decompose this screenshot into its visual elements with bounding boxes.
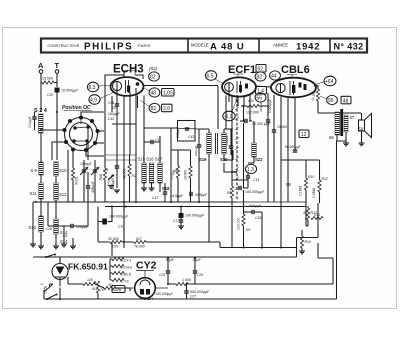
svg-text:C10: C10 xyxy=(118,225,124,229)
resistor R13 xyxy=(306,208,309,220)
coil S14 xyxy=(54,219,58,234)
svg-text:76.000: 76.000 xyxy=(134,245,145,249)
output transformer core xyxy=(340,109,343,136)
svg-text:C43: C43 xyxy=(188,135,194,139)
callout 206 boxed xyxy=(112,286,125,293)
callout -1,9 circled xyxy=(223,111,235,121)
tube CBL6 inner circle xyxy=(276,83,285,92)
speaker cone xyxy=(365,114,372,138)
wire link y150 xyxy=(171,149,191,151)
tube CY2 envelope xyxy=(135,278,156,299)
wire switch bottom down xyxy=(68,127,88,202)
wires from switch to right xyxy=(81,112,104,156)
callout 6,5 circled xyxy=(205,71,216,81)
wire earth down xyxy=(56,73,58,160)
coil S24 xyxy=(39,114,44,133)
bus y283 xyxy=(196,258,333,284)
svg-text:0,1MΩ: 0,1MΩ xyxy=(299,185,303,196)
capacitor C20 15.000 xyxy=(55,88,60,93)
callout 1,4 boxed xyxy=(256,87,267,95)
box around C43 xyxy=(178,121,196,142)
svg-text:58: 58 xyxy=(329,135,334,140)
header divider 1 xyxy=(187,39,189,52)
svg-text:82: 82 xyxy=(150,75,156,81)
svg-text:12: 12 xyxy=(301,132,307,138)
pilot lamp xyxy=(52,264,68,280)
callout 2,6 boxed xyxy=(162,104,173,112)
wire S20 right cap down xyxy=(224,150,233,160)
wire ECH3 grid down components xyxy=(112,88,136,124)
svg-text:Position OC: Position OC xyxy=(62,105,91,111)
speaker magnet xyxy=(359,120,365,131)
svg-text:R10: R10 xyxy=(308,175,314,179)
svg-text:448µµF: 448µµF xyxy=(91,181,95,193)
capacitor 50.000 CBL6 xyxy=(293,150,297,152)
coil S12 xyxy=(54,183,58,200)
svg-text:R14: R14 xyxy=(305,240,311,244)
svg-text:ANNEE: ANNEE xyxy=(273,43,288,48)
trimmer C41 xyxy=(108,175,114,181)
wire ECF1 to CBL6 xyxy=(255,86,271,87)
wire right rail down xyxy=(336,141,339,145)
svg-text:82: 82 xyxy=(151,106,157,112)
svg-text:10: 10 xyxy=(112,106,116,110)
svg-text:44,5µµF: 44,5µµF xyxy=(111,177,115,190)
svg-text:ECF1: ECF1 xyxy=(121,258,132,263)
wire trimmer 448 down xyxy=(87,172,89,202)
header outer box xyxy=(41,39,367,53)
wire link y202 extend xyxy=(237,201,306,203)
svg-text:R11: R11 xyxy=(314,213,320,217)
callout 1,3 circled xyxy=(245,164,256,173)
tube CY2 electrodes xyxy=(140,280,150,285)
svg-text:C3: C3 xyxy=(155,138,159,142)
capacitor C3 top of IF1 xyxy=(151,140,153,144)
callout 48 boxed right xyxy=(341,96,351,104)
svg-text:30µF: 30µF xyxy=(166,258,175,262)
coil S13 xyxy=(39,216,43,232)
coil S22 xyxy=(252,143,256,157)
callout 55 circled xyxy=(255,93,266,102)
heater resistor CY2 xyxy=(112,278,124,281)
svg-text:1942: 1942 xyxy=(296,42,320,53)
wire switch left xyxy=(41,130,66,160)
svg-text:PARIS: PARIS xyxy=(138,43,151,48)
mains switch bottom xyxy=(46,298,48,300)
svg-text:82: 82 xyxy=(257,75,263,81)
svg-text:70: 70 xyxy=(100,288,104,292)
svg-text:48: 48 xyxy=(343,98,349,104)
capacitor 44,5µµF right xyxy=(190,192,192,196)
wire x318 vertical xyxy=(317,203,319,258)
coil S19 xyxy=(207,133,211,154)
callout 52 boxed xyxy=(256,65,266,73)
svg-text:100.000: 100.000 xyxy=(246,111,259,115)
callout 12 boxed xyxy=(299,130,309,138)
callout 82 circled ECH3 xyxy=(149,72,160,81)
svg-text:C25: C25 xyxy=(159,273,165,277)
svg-text:C48: C48 xyxy=(108,101,114,105)
svg-text:S15 S16 S17: S15 S16 S17 xyxy=(138,157,163,162)
wire ECH3 anode down xyxy=(138,96,145,129)
heater resistor ECH3 xyxy=(112,264,124,267)
svg-text:S19: S19 xyxy=(199,157,207,162)
callout 6,3 ECH3 xyxy=(87,82,98,92)
svg-text:58: 58 xyxy=(286,182,291,187)
svg-text:44,5µµF: 44,5µµF xyxy=(195,193,207,197)
svg-text:57: 57 xyxy=(350,115,355,120)
ground left coil 3 xyxy=(72,238,74,246)
callout 1,05 boxed xyxy=(162,89,175,97)
svg-text:C18: C18 xyxy=(46,227,52,231)
ground left coil 1 xyxy=(40,244,42,246)
left coil bank wires xyxy=(33,163,56,244)
wire ECF1 top pin xyxy=(233,74,243,78)
svg-text:15.000: 15.000 xyxy=(42,77,53,81)
wire B+ node dots xyxy=(243,105,245,107)
tube ECH3 triode circle xyxy=(112,81,121,90)
tube ECF1 inner circle xyxy=(225,83,234,92)
svg-text:3Ω: 3Ω xyxy=(108,283,113,287)
tube CBL6 electrodes xyxy=(290,81,294,95)
svg-text:1,05: 1,05 xyxy=(163,91,173,97)
svg-text:44,5µµF: 44,5µµF xyxy=(170,194,184,198)
AVC bus y202 xyxy=(33,201,237,203)
svg-text:100µµF: 100µµF xyxy=(28,116,32,128)
svg-text:C19: C19 xyxy=(255,216,261,220)
callout 82 circled lower xyxy=(149,103,160,112)
svg-text:126: 126 xyxy=(87,278,93,282)
CY2 wires xyxy=(130,271,168,300)
svg-text:C47: C47 xyxy=(152,196,158,200)
wire link y180 xyxy=(287,180,289,202)
svg-text:100µµF: 100µµF xyxy=(80,162,92,166)
svg-text:FK.650.91: FK.650.91 xyxy=(68,262,108,272)
svg-text:6,3: 6,3 xyxy=(89,85,96,91)
tube ECH3 hexode electrodes xyxy=(126,80,129,93)
wire S19 bottom down xyxy=(199,155,209,207)
svg-text:CONSTRUCTEUR: CONSTRUCTEUR xyxy=(48,44,80,48)
wire detector links xyxy=(224,163,262,247)
svg-text:+64: +64 xyxy=(325,79,334,85)
wire top bus branch xyxy=(171,128,199,134)
svg-text:180µµF: 180µµF xyxy=(194,146,198,156)
svg-text:45: 45 xyxy=(105,168,109,172)
ground x64 xyxy=(61,244,67,247)
wire to output transformer xyxy=(318,110,361,113)
horizontal link y155 xyxy=(105,155,136,160)
svg-text:30µF: 30µF xyxy=(193,258,202,262)
svg-text:2,6: 2,6 xyxy=(163,106,170,112)
callout +64 circled xyxy=(324,76,336,86)
box around R14 xyxy=(297,238,319,258)
ground S15 xyxy=(143,183,145,188)
coil S10 xyxy=(54,162,58,176)
coil S11 xyxy=(39,183,43,199)
svg-text:100.000µµF: 100.000µµF xyxy=(185,214,205,218)
wire heater to lamp xyxy=(60,257,68,299)
svg-text:S12: S12 xyxy=(59,192,67,197)
verticals to bottom area xyxy=(98,160,209,256)
svg-text:400: 400 xyxy=(248,99,254,103)
resistor 3ohm xyxy=(104,286,116,289)
heater resistor ECF1 xyxy=(112,257,124,260)
wire CBL6 top pin xyxy=(287,75,297,79)
tube ECH3 envelope xyxy=(111,77,144,96)
resistor R14 xyxy=(300,236,303,248)
wire top of IF to ECH3 anode xyxy=(144,128,178,136)
svg-text:C27: C27 xyxy=(190,295,196,299)
wire ECH3 top electrode xyxy=(120,71,124,78)
shield hatched boundary xyxy=(236,95,238,200)
svg-text:340µµF: 340µµF xyxy=(259,102,263,112)
CBL6 pin wires down xyxy=(268,93,295,180)
wire mid heater verticals xyxy=(95,281,130,299)
wire left verticals to bus xyxy=(33,202,64,244)
vertical wire from top bus xyxy=(217,86,219,129)
svg-text:MODELE: MODELE xyxy=(191,43,209,48)
svg-text:N° 432: N° 432 xyxy=(334,42,364,52)
svg-text:(82): (82) xyxy=(149,66,158,71)
svg-text:4,9: 4,9 xyxy=(90,98,97,104)
svg-text:A 48 U: A 48 U xyxy=(210,42,245,53)
svg-text:PHILIPS: PHILIPS xyxy=(84,42,133,53)
bus y299 bottom xyxy=(44,290,337,299)
svg-text:CBL6: CBL6 xyxy=(121,272,132,277)
svg-text:S11: S11 xyxy=(30,191,38,196)
wires ECH3 pins to IF xyxy=(117,124,136,248)
svg-text:C42: C42 xyxy=(108,117,114,121)
ground left coil 2 xyxy=(55,244,57,246)
svg-text:45: 45 xyxy=(174,169,178,173)
ground transformer xyxy=(337,132,346,143)
ECF1 pin wires down xyxy=(226,92,250,180)
bus y206 xyxy=(105,206,306,208)
coil S20 xyxy=(222,133,226,154)
callout 82 circled ECF1 xyxy=(255,72,266,81)
svg-text:S 2 4: S 2 4 xyxy=(34,108,48,114)
ground S16 xyxy=(151,183,153,188)
tube ECH3 anode dot xyxy=(136,82,140,86)
capacitor C8 126µµF xyxy=(71,224,73,228)
svg-text:48: 48 xyxy=(151,91,157,97)
coil S15 xyxy=(142,163,146,183)
svg-text:0,5MΩ: 0,5MΩ xyxy=(312,187,316,198)
callout 48 circled xyxy=(149,88,160,97)
svg-text:55: 55 xyxy=(257,96,263,102)
svg-text:C14: C14 xyxy=(253,178,259,182)
svg-text:10.000: 10.000 xyxy=(277,125,287,129)
coil S16 xyxy=(149,163,153,183)
svg-text:CY2: CY2 xyxy=(121,279,130,284)
trimmer capacitor group near switch xyxy=(82,170,86,172)
wire link y160 right xyxy=(281,159,320,161)
capacitor C48 xyxy=(115,104,119,106)
callout 44 circled xyxy=(270,71,281,80)
wire ECF1 grid link xyxy=(226,128,233,130)
ground speaker xyxy=(361,131,363,143)
wire speaker top xyxy=(361,113,363,120)
svg-text:T: T xyxy=(55,61,60,70)
svg-text:A: A xyxy=(38,61,44,70)
svg-text:CY2: CY2 xyxy=(136,260,157,272)
switch contact dots xyxy=(63,116,100,153)
svg-text:7MΩ: 7MΩ xyxy=(99,173,103,181)
capacitor 10.000 CBL6 xyxy=(272,130,276,132)
ground mid cap xyxy=(114,190,120,193)
callout 95 circled xyxy=(327,95,338,104)
svg-text:500.000µµF: 500.000µµF xyxy=(190,290,210,294)
svg-text:44: 44 xyxy=(271,74,277,80)
svg-text:ECH3: ECH3 xyxy=(113,64,144,76)
callout 4,9 ECH3 xyxy=(89,95,100,105)
svg-text:C20: C20 xyxy=(47,93,53,97)
svg-text:S10: S10 xyxy=(59,168,67,173)
svg-text:R6: R6 xyxy=(246,228,250,232)
svg-text:180µµF: 180µµF xyxy=(108,112,120,116)
svg-text:100.000µµF: 100.000µµF xyxy=(156,292,174,296)
svg-text:5.000µµF: 5.000µµF xyxy=(268,99,272,113)
ground R14 xyxy=(299,251,305,254)
resistor R11 xyxy=(311,216,323,219)
svg-text:300Ω: 300Ω xyxy=(75,176,79,185)
heater chain bracket xyxy=(110,259,112,280)
wire link y124 xyxy=(112,123,136,125)
svg-text:Reg: Reg xyxy=(231,170,237,174)
svg-text:S 9: S 9 xyxy=(31,168,38,173)
shield box around ECH3 input xyxy=(105,75,143,160)
tube ECF1 electrodes xyxy=(237,81,241,93)
wires S19 xyxy=(199,129,231,163)
ground x33 xyxy=(30,244,36,247)
svg-text:R8: R8 xyxy=(227,191,231,195)
band switch inner ring xyxy=(70,123,93,146)
tube ECF1 envelope xyxy=(222,77,256,96)
svg-text:C26: C26 xyxy=(197,273,203,277)
output transformer secondary xyxy=(344,115,348,132)
capacitor C27 500.000µµF xyxy=(184,291,188,293)
switch on chassis bus xyxy=(45,256,47,258)
heater resistor CBL6 xyxy=(112,271,124,274)
header divider 2 xyxy=(258,39,260,52)
svg-text:6,5: 6,5 xyxy=(207,74,214,80)
coil S9 xyxy=(39,162,43,175)
coil S17 xyxy=(158,163,162,183)
wire x306 down xyxy=(306,206,308,226)
svg-text:100.000µµF: 100.000µµF xyxy=(245,190,265,194)
svg-text:10.000: 10.000 xyxy=(184,170,188,180)
wire C14 bottom xyxy=(239,186,248,188)
bus y247 xyxy=(220,247,297,249)
chassis bus y257 xyxy=(33,256,297,258)
svg-text:ECH3: ECH3 xyxy=(121,265,132,270)
output transformer primary xyxy=(335,112,340,135)
resistor R8 vertical xyxy=(230,186,233,198)
main B+ rail vertical xyxy=(243,106,245,206)
switch interior wires xyxy=(74,118,88,151)
ground trimmer xyxy=(108,186,114,189)
resistor 45 xyxy=(176,166,179,178)
wires mid verticals under ECH3 xyxy=(73,186,95,202)
wire antenna down xyxy=(40,73,42,80)
svg-text:R2: R2 xyxy=(132,174,136,178)
tube CBL6 envelope xyxy=(271,78,316,98)
svg-text:100.000: 100.000 xyxy=(237,218,241,230)
svg-text:1.000: 1.000 xyxy=(182,278,191,282)
band switch outer ring xyxy=(65,118,98,151)
svg-text:15.000µµF: 15.000µµF xyxy=(61,89,79,93)
wire CBL6 caps down xyxy=(268,122,281,247)
IF core bars xyxy=(216,133,218,154)
wire S22 top xyxy=(248,121,254,163)
wire CBL6 anode right xyxy=(314,85,318,86)
main bus top ECH3-ECF1 xyxy=(144,85,219,87)
svg-text:D16: D16 xyxy=(112,245,118,249)
svg-text:95: 95 xyxy=(328,98,334,104)
IF transformer S19 S20 caps xyxy=(197,145,201,147)
svg-text:C17: C17 xyxy=(173,219,179,223)
svg-text:S18: S18 xyxy=(162,186,170,191)
svg-text:R12: R12 xyxy=(322,177,328,181)
svg-text:S22: S22 xyxy=(255,157,263,162)
header divider 3 xyxy=(329,39,331,52)
svg-text:50.000µµF: 50.000µµF xyxy=(285,145,301,149)
